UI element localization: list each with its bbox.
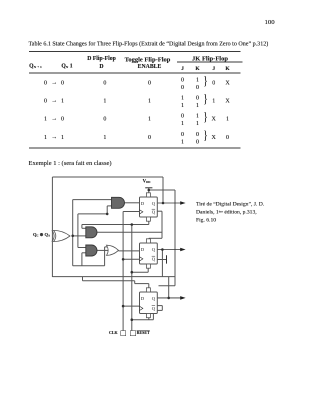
pad CLK xyxy=(121,331,127,337)
wire AND3 out H xyxy=(97,249,109,251)
wire AND2 out long H xyxy=(97,231,162,233)
wire Q3 tap V xyxy=(168,277,170,298)
wire net-X bottom H xyxy=(73,265,105,267)
brace row 3 xyxy=(203,111,207,124)
exemple caption xyxy=(29,159,112,166)
table caption xyxy=(29,41,269,47)
wire net-Q1 bottom jog V xyxy=(82,277,84,281)
table row 1: 0 to 0 xyxy=(44,80,47,86)
column header D Flip-Flop / D xyxy=(87,56,116,62)
page number xyxy=(265,18,275,25)
table row 2: 0 to 1 xyxy=(44,98,47,104)
label VDD xyxy=(143,179,151,185)
wire AND1 out to D1 xyxy=(125,202,140,204)
flip-flop U2 (D flip-flop B) xyxy=(140,239,158,268)
wire VDD branch V right bus xyxy=(174,190,176,286)
wire net-CLK V xyxy=(122,212,124,331)
wire FF3 set feed H xyxy=(135,283,149,285)
wire OR out to D2 xyxy=(118,250,139,252)
table bottom rule xyxy=(29,147,241,148)
and gate G2 (top, dark) xyxy=(112,197,125,208)
wire net-RESET top H xyxy=(82,224,149,226)
column header QN 1 xyxy=(61,63,72,69)
wire Q2bar stub H xyxy=(157,259,166,261)
table row 3: 1 to 0 xyxy=(44,116,47,122)
wire AND2 top in H xyxy=(82,227,86,229)
node RESET-FF3 junction xyxy=(131,318,134,321)
wire FF2 reset H xyxy=(132,271,148,273)
wire FF3 set feed V xyxy=(134,281,136,284)
wire Q1bar V xyxy=(161,211,163,238)
wire net-Y V xyxy=(77,214,79,248)
wire net-Q1 bottom H2 xyxy=(83,280,135,282)
wire AND1 bottom in H xyxy=(107,205,111,207)
label QC xor QA xyxy=(33,233,50,238)
sub headers J K J K xyxy=(181,66,184,72)
wire AND1 bottom jog V xyxy=(106,206,108,214)
wire FF2 reset stub V xyxy=(147,268,149,272)
wire AND2 bottom in H xyxy=(73,235,86,237)
JK header underline xyxy=(177,61,243,62)
or gate G5 xyxy=(107,245,119,255)
pad RESET xyxy=(130,331,136,337)
wire FF2 set feed H xyxy=(149,237,162,239)
label CLK xyxy=(109,331,118,335)
xor gate G1 (QC xor QA) xyxy=(52,230,70,241)
wire Q3bar wrap V xyxy=(152,310,154,319)
wire Q2 tap V xyxy=(161,250,163,277)
label RESET (active low) xyxy=(137,331,150,335)
wire VDD stub V xyxy=(148,188,150,193)
brace row 1 xyxy=(203,75,207,88)
wire net-Q1 left feedback V xyxy=(51,177,53,277)
flip-flop U3 (D flip-flop C) xyxy=(140,288,158,318)
wire AND3 bottom in H xyxy=(82,252,86,254)
and gate G3 (middle, dark) xyxy=(86,227,97,238)
brace row 4 xyxy=(203,129,207,142)
wire net-X xor-out V xyxy=(72,200,74,266)
brace row 2 xyxy=(203,93,207,106)
node Q1 junction xyxy=(162,202,165,205)
wire FF1 reset stub V xyxy=(148,221,150,224)
wire right bus bottom H xyxy=(159,285,176,287)
node CLK-FF2 junction xyxy=(122,258,125,261)
table top rule xyxy=(29,51,241,52)
wire FF1 clk in H xyxy=(123,211,139,213)
node Q2 junction xyxy=(161,248,164,251)
wire net-Q1 bottom H1 xyxy=(52,276,175,278)
wire Q3bar down V xyxy=(161,306,163,311)
node Q3 junction xyxy=(167,297,170,300)
wire FF3 clk in H xyxy=(123,305,139,307)
wire AND3 top in H xyxy=(78,247,86,249)
wire FF3 reset H xyxy=(132,319,154,321)
wire Q3bar stub H xyxy=(157,305,162,307)
wire OR top jog V xyxy=(104,247,106,266)
wire net-RESET V xyxy=(131,225,133,331)
output arrow QA xyxy=(157,201,185,205)
column header Toggle Flip-Flop / ENABLE xyxy=(125,56,171,63)
wire FF3 set stub xyxy=(148,284,150,288)
wire FF2 set stub V xyxy=(148,237,150,239)
node VDD junction xyxy=(148,189,151,192)
node CLK-FF3 junction xyxy=(122,305,125,308)
wire FF2 clk in H xyxy=(123,258,139,260)
wire AND3 bottom jog V xyxy=(81,253,83,266)
wire net-Q1 tap V xyxy=(162,177,164,203)
table row 4: 1 to 1 xyxy=(44,134,47,140)
wire Q1bar stub H xyxy=(157,210,162,212)
wire FF3 reset stub V xyxy=(148,318,150,320)
wire AND2 top jog V xyxy=(81,225,83,229)
power VDD symbol tick xyxy=(145,187,152,189)
terminator on Q2-bar (no-connect bar) xyxy=(166,255,168,263)
wire Q3bar wrap H xyxy=(153,309,162,311)
wire net-Y H xyxy=(78,213,107,215)
table header rule xyxy=(29,73,241,74)
output arrow QB xyxy=(157,248,185,252)
wire VDD branch H xyxy=(149,189,175,191)
node AND1-in junction xyxy=(106,213,109,216)
flip-flop U1 (D flip-flop A) xyxy=(140,193,158,221)
and gate G4 (bottom, dark) xyxy=(86,245,97,256)
node RESET-FF2 junction xyxy=(131,271,134,274)
wire net-Q1 top feedback H xyxy=(52,176,163,178)
wire net-X to AND1 top H xyxy=(73,199,112,201)
column header QN+1 xyxy=(29,63,42,69)
wire OR top in H xyxy=(105,246,109,248)
citation text xyxy=(196,201,264,207)
output arrow QC xyxy=(157,296,185,300)
column header JK Flip-Flop xyxy=(192,55,228,62)
node RESET-top junction xyxy=(131,223,134,226)
node XOR-out junction xyxy=(71,235,74,238)
